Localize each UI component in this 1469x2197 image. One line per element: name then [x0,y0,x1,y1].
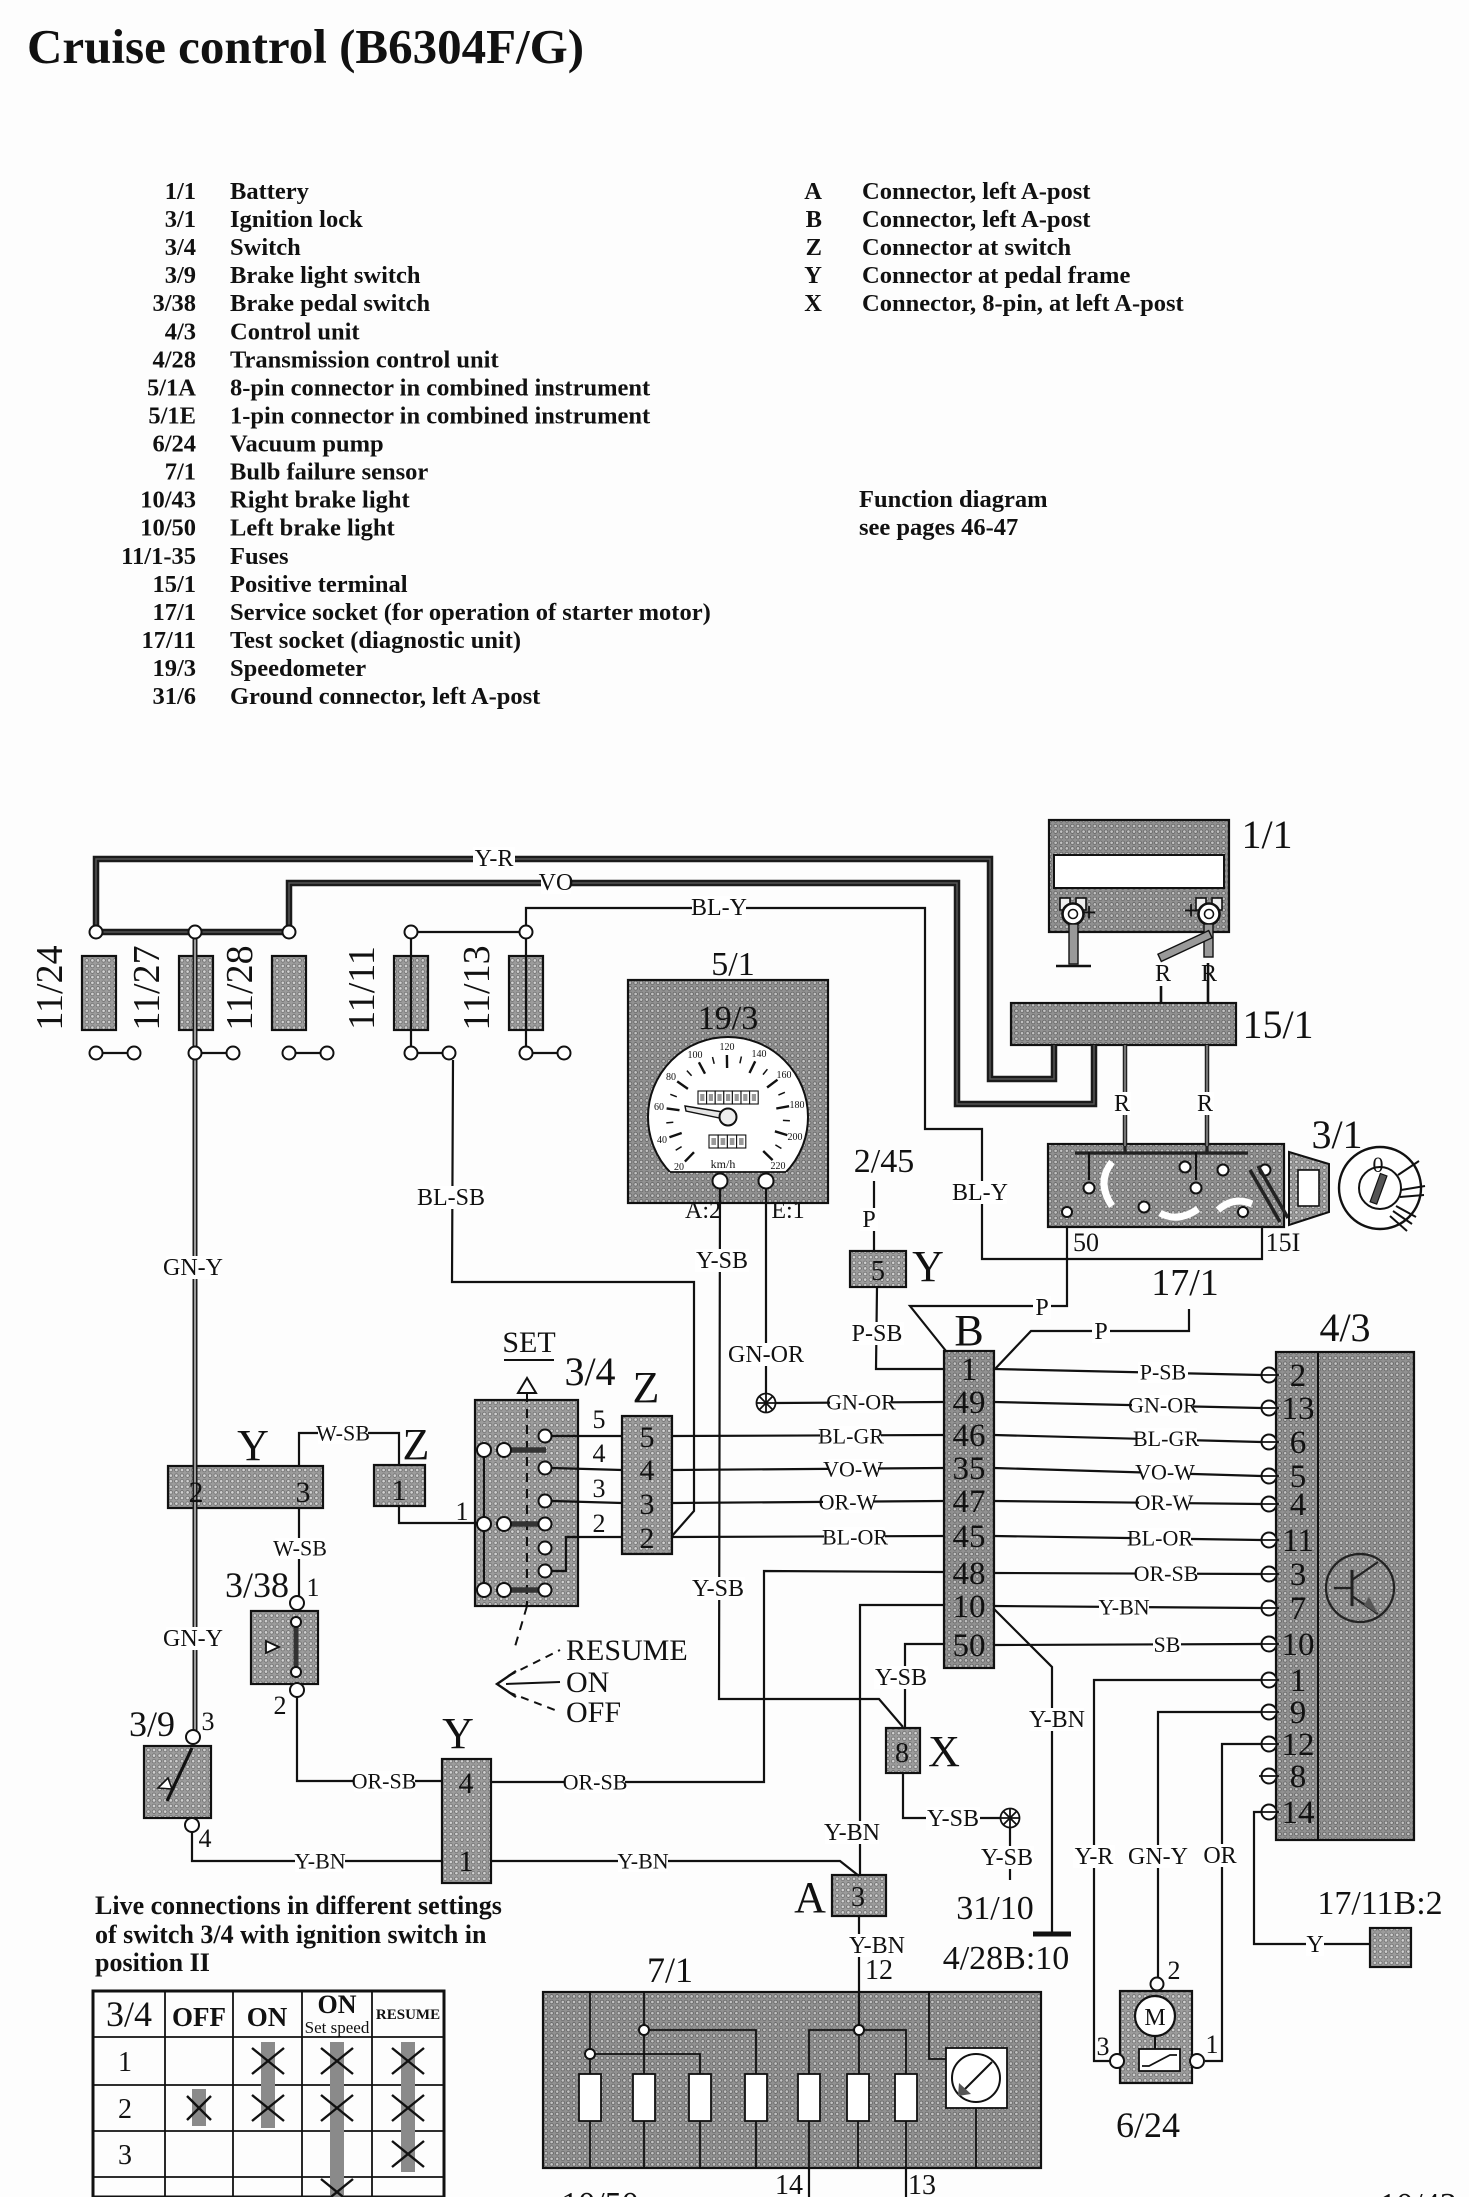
svg-text:6/24: 6/24 [1116,2105,1180,2145]
wire Y-R main feed [96,859,1054,1079]
svg-text:10/43: 10/43 [140,487,196,514]
svg-text:1: 1 [118,2047,132,2078]
svg-text:B: B [806,206,822,233]
svg-text:4/3: 4/3 [165,318,196,345]
wire Y-BN B10 to ground 31/10 [994,1609,1052,1932]
svg-text:GN-OR: GN-OR [1128,1392,1198,1417]
svg-text:+: + [1184,896,1199,925]
wire OR 4/3 pin12 to vacuum pump [1205,1744,1261,2061]
svg-text:7/1: 7/1 [647,1950,693,1990]
svg-text:19/3: 19/3 [152,655,196,682]
svg-text:GN-OR: GN-OR [728,1342,804,1368]
wire label Y 17/11 [1306,1933,1324,1956]
svg-text:4: 4 [459,1767,474,1800]
svg-text:OFF: OFF [566,1696,621,1729]
svg-text:Y-BN: Y-BN [824,1820,880,1846]
svg-text:1: 1 [961,1352,978,1388]
wire BL-GR B to 4/3 [994,1435,1261,1442]
wire fuse bus [96,929,289,936]
svg-text:1/1: 1/1 [1241,812,1292,857]
wire label OR-SB left [354,1771,415,1792]
svg-text:180: 180 [790,1100,805,1111]
svg-text:ON: ON [247,2002,288,2032]
svg-text:Y-BN: Y-BN [1029,1707,1085,1733]
svg-text:OR-SB: OR-SB [1134,1561,1199,1586]
wire label GN-Y upper [166,1256,220,1279]
wire label GN-OR right [1132,1395,1193,1416]
svg-text:20: 20 [674,1162,684,1173]
svg-text:11/13: 11/13 [456,945,498,1030]
svg-text:11: 11 [1282,1523,1314,1559]
svg-text:220: 220 [771,1161,786,1172]
svg-text:4: 4 [199,1824,212,1853]
svg-text:8: 8 [1290,1759,1307,1795]
svg-text:Connector at switch: Connector at switch [862,234,1072,261]
svg-text:15I: 15I [1266,1228,1301,1257]
svg-text:B: B [954,1306,983,1355]
svg-text:BL-GR: BL-GR [1133,1426,1199,1451]
ground 31/10 4/28B:10 [1033,1932,1071,1937]
svg-text:2: 2 [274,1691,287,1720]
fuse lower pigtails [95,1046,97,1053]
svg-text:Y-SB: Y-SB [981,1845,1033,1871]
svg-text:A: A [804,178,822,205]
svg-text:3: 3 [851,1882,865,1913]
wire GN-Y vertical from fuse 11/27 [193,932,198,1737]
svg-text:200: 200 [788,1132,803,1143]
svg-text:Set speed: Set speed [305,2018,370,2037]
svg-text:km/h: km/h [711,1157,736,1171]
wire VO main feed [289,883,1094,1104]
wire W-SB Y3 to Z1 [299,1433,399,1466]
svg-text:4: 4 [640,1454,655,1487]
svg-text:GN-OR: GN-OR [826,1389,896,1414]
svg-text:VO-W: VO-W [1135,1459,1195,1484]
svg-text:2: 2 [1290,1358,1307,1394]
svg-text:Ground connector, left A-post: Ground connector, left A-post [230,683,541,710]
wire OR-W B to 4/3 [994,1501,1261,1504]
wire Y-BN Y1 to A [491,1861,859,1876]
wire label OR lower [1205,1844,1235,1867]
svg-text:31/10: 31/10 [956,1890,1033,1927]
wire 3/4 pin2 to Z2 [552,1537,622,1571]
svg-text:Right brake light: Right brake light [230,487,411,514]
svg-text:Y-SB: Y-SB [696,1248,748,1274]
svg-text:Fuses: Fuses [230,543,289,570]
wire label Y-BN below A [850,1934,904,1957]
wire label BL-GR left [820,1426,881,1447]
svg-text:SET: SET [502,1326,555,1359]
svg-text:11/1-35: 11/1-35 [121,543,196,570]
svg-text:9: 9 [1290,1695,1307,1731]
svg-text:A: A [794,1873,826,1922]
wire OR-SB B to 4/3 [994,1573,1261,1574]
svg-text:3/38: 3/38 [225,1565,289,1605]
fuse 11/13 [509,956,543,1030]
speedometer unit 5/1 [628,980,828,1203]
svg-text:R: R [1114,1091,1130,1117]
wire label BL-Y vertical [953,1181,1007,1204]
svg-text:BL-OR: BL-OR [1127,1525,1193,1550]
wire label BL-Y top [692,896,746,919]
wire BL-OR B to 4/3 [994,1536,1261,1540]
svg-text:P: P [862,1207,875,1233]
svg-text:47: 47 [953,1484,986,1520]
svg-text:ON: ON [566,1666,609,1699]
brake pedal switch 3/38 box [251,1611,318,1684]
svg-text:49: 49 [953,1385,986,1421]
svg-text:+: + [1082,898,1097,927]
svg-text:3/4: 3/4 [106,1994,152,2034]
svg-text:Connector, left A-post: Connector, left A-post [862,206,1091,233]
svg-text:Left brake light: Left brake light [230,515,396,542]
svg-text:10/43: 10/43 [1379,2187,1456,2197]
wire 3/4 pin4 to Z4 [552,1468,622,1470]
svg-text:Brake light switch: Brake light switch [230,262,421,289]
wire label Y-BN ground [1030,1708,1084,1731]
wire label SB right [1153,1634,1181,1655]
wire bus fuses 11/11 11/13 [411,931,526,933]
svg-text:15/1: 15/1 [152,571,196,598]
svg-text:5/1E: 5/1E [148,402,196,429]
svg-text:Y: Y [1306,1932,1323,1958]
svg-text:3/4: 3/4 [564,1349,615,1394]
battery left ground stem [1069,924,1078,964]
svg-text:R: R [1197,1091,1213,1117]
bulb failure sensor 7/1 box [543,1992,1041,2168]
wire label BL-OR right [1130,1528,1191,1549]
svg-text:Y-R: Y-R [475,846,514,872]
svg-text:GN-Y: GN-Y [163,1255,223,1281]
wire R left 15/1 to ignition lock [1123,1045,1128,1146]
speedometer terminals A:2 E:1 [713,1174,728,1189]
switch 3/4 contacts [483,1450,485,1590]
svg-text:Z: Z [403,1420,430,1469]
svg-text:10/50: 10/50 [561,2186,638,2197]
svg-text:17/11B:2: 17/11B:2 [1317,1885,1442,1922]
wire GN-OR to connector B pin 49 [776,1402,944,1403]
svg-text:3: 3 [1290,1557,1307,1593]
wire label Y-BN left [295,1851,345,1872]
svg-text:Transmission control unit: Transmission control unit [230,346,499,373]
wire label GN-OR left [830,1392,891,1413]
wire label P 17/1 [1092,1320,1110,1343]
wire label OR-W right [1139,1492,1189,1513]
wire label W-SB lower [275,1538,325,1559]
svg-text:3: 3 [640,1488,655,1521]
svg-text:5/1: 5/1 [711,946,754,983]
wire Z1 to 3/4 pin1 [399,1506,477,1523]
connector Y 4-1 box [442,1759,491,1883]
svg-text:Test socket (diagnostic unit): Test socket (diagnostic unit) [230,627,521,654]
svg-text:14: 14 [1282,1795,1315,1831]
svg-text:14: 14 [775,2170,803,2197]
svg-text:2: 2 [189,1476,204,1509]
wire label Y-R lower [1073,1845,1115,1868]
svg-text:ON: ON [318,1990,357,2019]
svg-text:Y-R: Y-R [1075,1844,1114,1870]
svg-text:13: 13 [1282,1391,1315,1427]
svg-text:Service socket (for operation: Service socket (for operation of starter… [230,599,711,626]
brake light switch 3/9 box [144,1746,211,1818]
svg-text:Battery: Battery [230,178,310,205]
svg-text:Vacuum pump: Vacuum pump [230,431,384,458]
svg-text:11/27: 11/27 [126,945,168,1030]
switch 3/4 actuator dashed line [526,1393,528,1606]
connector Z 1 box [374,1465,425,1506]
svg-text:OR-W: OR-W [1135,1490,1194,1515]
wire Y-SB from speedometer A:2 [719,1188,903,1727]
svg-text:Y-SB: Y-SB [692,1576,744,1602]
wire 3/4 pin3 to Z3 [552,1501,622,1503]
svg-text:Switch: Switch [230,234,301,261]
wire label P-SB left [850,1322,904,1345]
svg-text:5: 5 [640,1421,655,1454]
svg-text:OR-SB: OR-SB [563,1769,628,1794]
svg-text:VO-W: VO-W [823,1456,883,1481]
svg-text:VO: VO [539,870,574,896]
connector X box [886,1728,920,1773]
table bars and crosses [261,2042,275,2128]
svg-text:2/45: 2/45 [854,1143,914,1180]
svg-text:X: X [804,290,822,317]
svg-text:0: 0 [1373,1152,1384,1177]
wire Y-BN A to 7/1 [858,1916,860,2030]
svg-text:X: X [928,1727,960,1776]
wire label Y-SB X lower [926,1807,980,1830]
wire Y-BN 3/9 to Y1 [192,1832,442,1861]
svg-text:position II: position II [95,1948,210,1977]
svg-text:4: 4 [593,1439,606,1468]
svg-text:Y-SB: Y-SB [927,1806,979,1832]
svg-text:RESUME: RESUME [376,2007,440,2023]
wire GN-Y 4/3 pin9 to vacuum pump [1158,1712,1261,1977]
ignition key lever [1250,1170,1280,1222]
svg-text:Y-BN: Y-BN [1098,1594,1149,1619]
svg-text:R: R [1155,961,1171,987]
ignition lock 3/1 [1048,1144,1284,1227]
svg-text:10/50: 10/50 [140,515,196,542]
wire label OR-W left [823,1492,873,1513]
control unit 4/3 pins [1262,1368,1277,1383]
svg-text:3/1: 3/1 [165,206,196,233]
control unit 4/3 [1276,1352,1414,1840]
svg-text:3: 3 [593,1474,606,1503]
svg-text:Control unit: Control unit [230,318,360,345]
fuse top connection nodes [90,926,103,939]
svg-text:SB: SB [1154,1632,1181,1657]
svg-text:2: 2 [118,2094,132,2125]
svg-text:E:1: E:1 [771,1198,804,1224]
svg-text:12: 12 [1282,1727,1315,1763]
wire R right 15/1 to ignition lock [1205,1045,1210,1146]
svg-text:M: M [1144,2005,1165,2031]
wire label P-SB right [1138,1362,1188,1383]
vacuum pump 6/24 box [1120,1991,1192,2083]
svg-text:Brake pedal switch: Brake pedal switch [230,290,430,317]
ignition lock contacts [1084,1183,1095,1194]
svg-text:3: 3 [1097,2032,1110,2061]
table grid [93,1991,444,2197]
wire BL-GR Z5 to B46 [672,1435,944,1436]
svg-text:11/11: 11/11 [341,946,383,1030]
fuse 11/24 [82,956,116,1030]
svg-text:35: 35 [953,1451,986,1487]
fuse 11/27 [179,956,213,1030]
svg-text:A:2: A:2 [685,1198,721,1224]
svg-text:3/9: 3/9 [165,262,196,289]
wire label BL-SB [418,1186,484,1209]
svg-text:17/1: 17/1 [152,599,196,626]
wire label Y-BN mid [618,1851,668,1872]
wire label Y-SB B50 [874,1666,928,1689]
svg-text:1: 1 [456,1497,469,1526]
vacuum pump motor [1135,1996,1175,2036]
svg-text:BL-Y: BL-Y [952,1180,1008,1206]
wire Y-BN B to 4/3 [994,1606,1261,1608]
wire OR-W Z3 to B47 [672,1501,944,1503]
svg-text:17/11: 17/11 [142,627,196,654]
svg-text:8-pin connector in combined in: 8-pin connector in combined instrument [230,374,651,401]
svg-text:17/1: 17/1 [1151,1262,1219,1304]
svg-text:3: 3 [202,1707,215,1736]
svg-text:4/28B:10: 4/28B:10 [943,1940,1070,1977]
svg-text:40: 40 [657,1135,667,1146]
wire label OR-SB right [564,1772,625,1793]
svg-text:GN-Y: GN-Y [163,1626,223,1652]
svg-text:3: 3 [118,2140,132,2171]
svg-text:3/1: 3/1 [1311,1112,1362,1157]
svg-text:Y-BN: Y-BN [617,1848,668,1873]
svg-text:15/1: 15/1 [1242,1002,1313,1047]
svg-text:5: 5 [871,1256,885,1287]
connector Z box [622,1416,672,1554]
svg-text:160: 160 [777,1070,792,1081]
wire BL-SB fuse 11/11 to Z2 [452,1060,694,1536]
wire OR-SB 3/38 to Y4 [297,1697,442,1781]
battery terminal clamps [1060,898,1070,910]
svg-text:11/28: 11/28 [219,945,261,1030]
transistor symbol in 4/3 [1326,1554,1394,1622]
svg-text:80: 80 [666,1072,676,1083]
svg-text:31/6: 31/6 [152,683,196,710]
wire label Y-SB speedometer [695,1249,749,1272]
svg-text:1: 1 [459,1845,474,1878]
svg-text:2: 2 [640,1522,655,1555]
svg-text:W-SB: W-SB [273,1535,327,1560]
svg-text:12: 12 [865,1955,893,1986]
svg-text:OR: OR [1203,1843,1236,1869]
svg-text:P-SB: P-SB [852,1321,903,1347]
svg-text:BL-Y: BL-Y [691,895,747,921]
svg-text:RESUME: RESUME [566,1634,688,1667]
svg-text:6/24: 6/24 [152,431,196,458]
switch 3/4 RESUME ON OFF legend [508,1650,560,1676]
svg-text:10: 10 [953,1589,986,1625]
wire label Y-BN B10 [825,1821,879,1844]
svg-text:Y: Y [804,262,822,289]
connector A box [832,1875,886,1916]
test socket 17/11B:2 box [1370,1928,1411,1967]
positive terminal 15/1 [1011,1003,1236,1045]
wire Y-SB X to node [903,1773,1000,1818]
svg-text:Y-SB: Y-SB [875,1665,927,1691]
svg-text:P: P [1035,1295,1048,1321]
wire 3/4 pin5 to Z5 [552,1435,622,1437]
connector Y 5 box [850,1251,906,1287]
svg-text:60: 60 [654,1102,664,1113]
wire Y 4/3 pin14 to 17/11B:2 [1254,1812,1370,1944]
svg-text:2: 2 [1168,1956,1181,1985]
wire label BL-GR right [1136,1428,1197,1449]
wire label BL-OR left [824,1527,885,1548]
svg-text:3/9: 3/9 [129,1704,175,1744]
ignition key symbol [1289,1152,1329,1225]
wire label Y-SB node lower [980,1846,1034,1869]
battery 1/1 [1049,820,1229,932]
svg-text:BL-OR: BL-OR [822,1524,888,1549]
svg-text:6: 6 [1290,1425,1307,1461]
wire label Y-SB A2 lower [691,1577,745,1600]
svg-text:13: 13 [908,2170,936,2197]
svg-text:1: 1 [307,1573,320,1602]
wire label Y-R top [473,847,515,870]
wire label GN-OR speedometer [733,1343,799,1366]
brake pedal switch 3/38 contacts [290,1596,304,1610]
node GN-OR distribution [757,1394,776,1413]
svg-text:Connector, 8-pin, at left A-po: Connector, 8-pin, at left A-post [862,290,1185,317]
svg-text:50: 50 [1073,1228,1099,1257]
fuse 11/28 [272,956,306,1030]
svg-text:Bulb failure sensor: Bulb failure sensor [230,459,428,486]
wire VO-W Z4 to B35 [672,1468,944,1470]
wire label VO-W right [1140,1462,1190,1483]
svg-text:Y: Y [442,1709,474,1758]
svg-text:140: 140 [752,1049,767,1060]
svg-text:45: 45 [953,1519,986,1555]
wire SB B to 4/3 [994,1644,1261,1645]
svg-text:1/1: 1/1 [165,178,196,205]
svg-text:11/24: 11/24 [29,945,71,1030]
wire label Y-BN right [1099,1597,1149,1618]
speedometer gauge face 19/3 [648,1037,808,1197]
wire GN-OR B to 4/3 [994,1402,1261,1408]
svg-text:Cruise control (B6304F/G): Cruise control (B6304F/G) [27,19,584,74]
wire Y-SB B50 to X [905,1644,944,1728]
connector B strip [944,1351,994,1668]
svg-text:P-SB: P-SB [1140,1359,1186,1384]
svg-text:GN-Y: GN-Y [1128,1844,1188,1870]
svg-text:Y-BN: Y-BN [294,1848,345,1873]
speedometer needle [685,1106,729,1120]
svg-text:OR-SB: OR-SB [352,1768,417,1793]
wire VO-W B to 4/3 [994,1468,1261,1476]
svg-text:5/1A: 5/1A [147,374,196,401]
battery right stem and loose cable R [1204,924,1213,957]
svg-text:120: 120 [720,1042,735,1053]
svg-text:BL-SB: BL-SB [417,1185,485,1211]
wire label GN-Y lower [166,1627,220,1650]
svg-text:W-SB: W-SB [316,1420,370,1445]
speedometer odometer [698,1091,707,1104]
connector Y 2-3 box [168,1466,323,1508]
svg-text:50: 50 [953,1628,986,1664]
svg-text:Y: Y [237,1421,269,1470]
wire BL-Y from fuse 11/13 to ignition lock [526,908,1262,1259]
wire label GN-Y 6/24 [1131,1845,1185,1868]
wires to brake lights [808,2168,810,2197]
bulb failure sensor 7/1 interior [579,2074,601,2121]
